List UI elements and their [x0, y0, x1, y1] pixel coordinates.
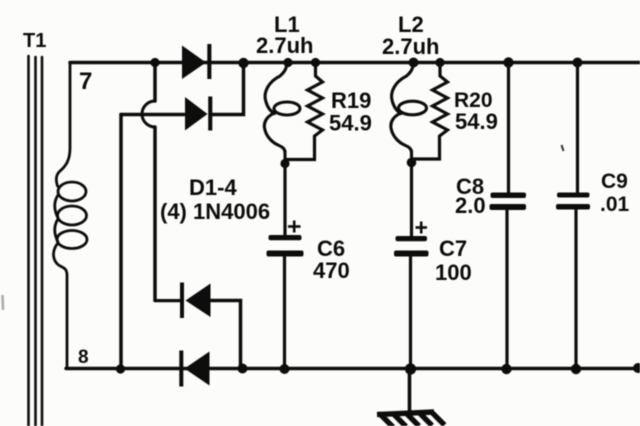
inductor L2 [391, 64, 427, 162]
C7 plus sign [416, 222, 428, 234]
wire: top rail (node 7 positive rail) [70, 61, 640, 65]
svg-text:D1-4: D1-4 [189, 175, 237, 200]
transformer T1 secondary winding [53, 63, 87, 369]
svg-text:2.7uh: 2.7uh [256, 33, 313, 58]
capacitor C6 (polarized) [267, 235, 304, 257]
wire: C7 to bottom rail [409, 257, 412, 370]
wire: L2/R20 node down to C7 [410, 163, 413, 237]
svg-text:R19: R19 [331, 88, 371, 113]
node L2/R20 [407, 158, 417, 168]
svg-text:2.0: 2.0 [455, 193, 486, 218]
svg-text:2.7uh: 2.7uh [382, 34, 439, 59]
svg-text:100: 100 [435, 260, 472, 285]
junction dots, top rail [150, 57, 582, 68]
inductor L1 [264, 64, 300, 163]
capacitor C8 [507, 63, 510, 193]
wire: ground stub [408, 369, 412, 413]
resistor R19 [287, 63, 323, 160]
wire: riser x=121 from bottom rail up to D2 row [119, 115, 123, 370]
wire: bottom rail (node 8 / ground rail) [66, 367, 640, 370]
diode D2 (pointing right) [185, 97, 212, 131]
wire hop over y=114 wire [142, 101, 155, 127]
wire: riser from node 7 junction down to D3 [153, 63, 157, 102]
svg-text:.01: .01 [600, 193, 630, 216]
svg-text:470: 470 [313, 258, 350, 283]
svg-text:54.9: 54.9 [329, 111, 372, 136]
transformer T1 core lines [29, 56, 43, 426]
diode D1 (top, pointing right) [182, 44, 211, 79]
node L1/R19 [280, 159, 289, 168]
diode D4 (pointing left, in bottom rail) [179, 351, 209, 387]
svg-text:C7: C7 [439, 236, 467, 261]
wire: L1/R19 node down to C6 [283, 164, 286, 236]
svg-text:8: 8 [78, 347, 89, 368]
capacitor C7 (polarized) [394, 236, 429, 257]
junction dots, bottom rail [116, 363, 640, 375]
svg-text:7: 7 [79, 68, 92, 95]
resistor R20 [413, 63, 448, 160]
wire: D3 anode down to bottom rail [211, 301, 241, 370]
scan speck near C9 [562, 145, 564, 151]
wire: C6 to bottom rail [283, 257, 286, 370]
capacitor C9 [576, 63, 579, 193]
svg-text:C9: C9 [601, 170, 628, 193]
svg-text:T1: T1 [23, 30, 46, 52]
diode D3 (pointing left) [155, 283, 211, 319]
svg-text:(4) 1N4006: (4) 1N4006 [160, 199, 270, 224]
wire: from node 8 riser to D2 anode [121, 113, 184, 117]
C6 plus sign [288, 221, 301, 233]
scan mark left edge [1, 295, 4, 310]
svg-text:54.9: 54.9 [455, 109, 498, 134]
wire: D2 cathode up to positive junction [211, 63, 244, 115]
ground symbol [377, 412, 445, 426]
